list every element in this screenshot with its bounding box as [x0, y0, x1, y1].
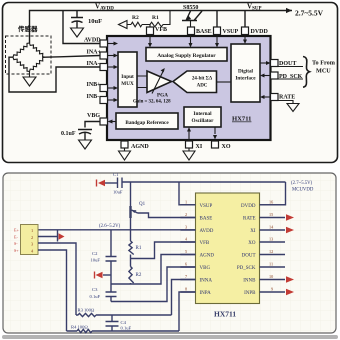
svg-text:11: 11: [269, 262, 273, 267]
svg-text:Interface: Interface: [235, 76, 256, 82]
pin VBG: [100, 118, 108, 125]
svg-text:Analog Supply Regulator: Analog Supply Regulator: [157, 53, 216, 59]
gnd arrow INPB pin9: [286, 289, 294, 295]
pin AVDD: [100, 40, 108, 47]
wire J1 pin3 to R3: [38, 243, 76, 315]
svg-text:R1: R1: [152, 15, 159, 21]
svg-text:AGND: AGND: [200, 254, 215, 259]
ground (XI): [183, 148, 195, 160]
pin names right: [237, 204, 256, 296]
svg-text:PD_SCK: PD_SCK: [237, 266, 256, 271]
svg-text:INB+: INB+: [87, 82, 102, 88]
svg-text:S8550: S8550: [183, 5, 198, 11]
block 24-bit ADC: [173, 71, 217, 93]
resistor R3: [76, 313, 172, 316]
wire VSUP into regulator: [216, 35, 218, 44]
svg-text:Gain = 32, 64, 128: Gain = 32, 64, 128: [133, 100, 171, 105]
wire DVDD into chip: [244, 35, 246, 41]
wire R3 to INNA pin7: [172, 280, 196, 316]
block Bandgap Reference: [116, 113, 178, 129]
svg-text:Q1: Q1: [139, 202, 146, 207]
svg-text:C3: C3: [92, 287, 98, 292]
block Input MUX: [118, 52, 137, 107]
pin numbers right: [269, 199, 274, 291]
svg-text:R4 100Ω: R4 100Ω: [71, 325, 88, 330]
svg-text:VBG: VBG: [200, 266, 211, 271]
svg-text:传感器: 传感器: [17, 24, 38, 33]
pin INB-: [100, 97, 108, 104]
resistor R1: [129, 230, 134, 267]
transistor Q1: [130, 182, 132, 230]
svg-text:6: 6: [185, 262, 187, 267]
ground (10uF): [71, 28, 84, 37]
resistor R2: [131, 22, 142, 27]
pin DOUT: [260, 62, 267, 64]
ground (VFB divider, sideways): [119, 21, 128, 29]
capacitor 10uF: [71, 11, 83, 29]
svg-text:Bandgap Reference: Bandgap Reference: [125, 120, 169, 126]
svg-text:7: 7: [185, 274, 187, 279]
wire rail arrowhead: [286, 8, 292, 13]
svg-text:XI: XI: [196, 144, 203, 150]
svg-text:INPB: INPB: [244, 291, 256, 296]
capacitor C1: [118, 178, 123, 189]
wire ADC to digital interface: [217, 81, 232, 83]
svg-text:2: 2: [185, 212, 187, 217]
svg-text:2: 2: [31, 235, 33, 240]
svg-text:Oscillator: Oscillator: [192, 118, 215, 124]
svg-text:HX711: HX711: [232, 116, 251, 123]
svg-text:MUX: MUX: [121, 81, 134, 87]
svg-text:MCUVDD: MCUVDD: [292, 188, 314, 193]
svg-text:XO: XO: [222, 144, 231, 150]
svg-text:VFB: VFB: [200, 241, 210, 246]
svg-text:E-: E-: [14, 235, 18, 240]
wire bridge to INA- (staircase): [9, 57, 100, 92]
bottom panel frame: [3, 173, 336, 333]
svg-text:AVDD: AVDD: [200, 229, 214, 234]
svg-text:INNA: INNA: [200, 279, 213, 284]
brace to MCU: [303, 57, 310, 88]
svg-text:8: 8: [185, 287, 187, 292]
bridge resistor arm bottom-right: [30, 57, 46, 71]
ground (AGND): [119, 148, 131, 160]
bridge dashed box: [6, 36, 52, 74]
svg-text:XO: XO: [248, 241, 256, 246]
svg-text:13: 13: [269, 237, 273, 242]
HX711 chip block: [107, 36, 271, 140]
wire top rail: [122, 181, 286, 183]
wire AVDD rail: [38, 229, 196, 231]
wire MUX to PGA: [137, 76, 147, 88]
svg-text:12: 12: [269, 249, 273, 254]
connector J1: [21, 225, 39, 255]
pin numbers left: [185, 199, 188, 291]
svg-text:5: 5: [185, 249, 187, 254]
svg-text:HX711: HX711: [214, 310, 236, 319]
gnd arrow RATE pin15: [286, 214, 294, 220]
ground (RATE): [287, 104, 299, 112]
svg-text:MCU: MCU: [316, 68, 331, 75]
block Internal Oscillator: [184, 107, 221, 127]
resistor R2: [129, 267, 134, 285]
svg-text:9: 9: [271, 287, 273, 292]
wire DVDD riser: [260, 182, 286, 205]
panel shadow: [2, 335, 338, 339]
pin RATE: [264, 96, 271, 98]
pin BASE: [190, 21, 192, 28]
svg-text:INA+: INA+: [87, 50, 102, 56]
svg-text:10: 10: [269, 274, 273, 279]
svg-text:Input: Input: [121, 74, 134, 80]
svg-text:DVDD: DVDD: [241, 204, 256, 209]
svg-text:DVDD: DVDD: [251, 29, 269, 35]
bridge resistor arm top-right: [30, 43, 46, 57]
op-amp PGA: [147, 71, 172, 93]
left pin stubs 1-8: [181, 205, 196, 292]
svg-text:16: 16: [269, 199, 273, 204]
svg-text:2.7~5.5V: 2.7~5.5V: [295, 9, 324, 18]
bridge resistor arm bottom-left: [13, 57, 30, 71]
pin XO: [214, 127, 216, 134]
wire VFB into regulator: [149, 35, 151, 44]
top panel frame: [3, 3, 338, 163]
wire R4 to INPA pin8: [179, 292, 196, 331]
svg-text:INA-: INA-: [87, 61, 100, 67]
svg-text:0.1uF: 0.1uF: [121, 326, 132, 331]
pin INA+: [100, 52, 108, 59]
svg-text:BASE: BASE: [200, 217, 213, 222]
wire Q1 base to BASE pin: [138, 213, 196, 218]
svg-text:PGA: PGA: [157, 93, 168, 99]
svg-text:INNB: INNB: [243, 279, 256, 284]
svg-text:XI: XI: [250, 229, 256, 234]
svg-text:Digital: Digital: [238, 69, 254, 75]
svg-text:10uF: 10uF: [88, 18, 102, 25]
pin DVDD: [244, 11, 246, 28]
power gnd arrow (C1): [98, 180, 105, 186]
svg-text:INPA: INPA: [200, 291, 212, 296]
svg-text:VFB: VFB: [155, 27, 167, 33]
svg-text:VSUP: VSUP: [200, 204, 213, 209]
svg-text:RATE: RATE: [243, 217, 256, 222]
block Digital Interface: [231, 44, 260, 102]
block Analog Supply Regulator: [146, 48, 227, 62]
svg-text:1: 1: [185, 199, 187, 204]
pin names left: [200, 204, 215, 296]
capacitor C2: [106, 230, 117, 292]
resistor R4: [67, 329, 180, 332]
svg-text:R2: R2: [136, 273, 142, 278]
svg-text:3: 3: [185, 225, 187, 230]
svg-text:VSUP: VSUP: [223, 29, 239, 35]
right pin stubs 9-16: [260, 205, 286, 292]
gnd arrow XI pin14: [286, 227, 294, 233]
svg-text:ADC: ADC: [197, 84, 208, 89]
svg-text:10uF: 10uF: [91, 258, 101, 263]
pin VFB: [147, 27, 154, 35]
bridge resistor arm top-left: [13, 43, 30, 57]
svg-text:BASE: BASE: [196, 29, 212, 35]
svg-text:24-bit ΣΔ: 24-bit ΣΔ: [192, 77, 213, 82]
power gnd arrow (mid): [103, 274, 111, 276]
wire AGND pin5 staircase: [111, 255, 196, 285]
svg-text:R3 100Ω: R3 100Ω: [78, 308, 95, 313]
pin INA-: [100, 64, 108, 71]
svg-text:10uF: 10uF: [113, 190, 123, 195]
pin INB+: [100, 85, 108, 92]
svg-text:Internal: Internal: [193, 111, 212, 117]
pin XI: [188, 131, 190, 141]
capacitor 0.1uF: [78, 130, 92, 141]
wire VFB chain: [127, 11, 170, 28]
wire BASE into regulator: [190, 35, 192, 44]
capacitor C4: [106, 315, 119, 331]
svg-text:1: 1: [31, 228, 33, 233]
svg-text:(2.6~5.2V): (2.6~5.2V): [99, 224, 121, 229]
svg-text:R1: R1: [136, 246, 142, 251]
svg-text:E+: E+: [14, 228, 19, 233]
svg-text:C1: C1: [113, 172, 119, 177]
gnd arrow INNB pin10: [286, 276, 294, 282]
svg-text:15: 15: [269, 212, 273, 217]
wire AVDD: [63, 11, 100, 44]
svg-text:C2: C2: [92, 251, 98, 256]
svg-text:RATE: RATE: [279, 95, 295, 101]
svg-text:C4: C4: [121, 320, 127, 325]
pin VSUP: [216, 11, 218, 28]
IC HX711 U1: [196, 193, 260, 304]
ground (bridge): [23, 72, 36, 87]
pin AGND: [121, 141, 128, 148]
ground (0.1uF): [79, 140, 92, 149]
wire J1 pin4 to R4: [38, 250, 67, 331]
svg-text:INB-: INB-: [87, 94, 100, 100]
wire C3 to VBG pin6: [111, 267, 196, 302]
resistor R1: [150, 22, 163, 27]
svg-text:AGND: AGND: [131, 144, 149, 150]
wire VFB pin4 staircase: [131, 242, 196, 259]
svg-text:AVDD: AVDD: [84, 38, 101, 44]
svg-text:0.1uF: 0.1uF: [90, 294, 101, 299]
wire J1 pin2 + gnd arrow: [38, 230, 58, 242]
svg-text:To From: To From: [312, 60, 336, 67]
wire VSUP riser: [179, 182, 196, 205]
svg-text:R2: R2: [132, 15, 139, 21]
svg-text:VBG: VBG: [87, 113, 100, 119]
wire VBG to 0.1uF: [85, 122, 100, 128]
net VAVDD rail: [30, 11, 293, 44]
svg-text:(2.7~5.5V): (2.7~5.5V): [291, 181, 313, 186]
svg-text:S+: S+: [14, 248, 19, 253]
capacitor C3: [106, 292, 117, 302]
svg-text:DOUT: DOUT: [242, 254, 256, 259]
pin PD_SCK: [264, 75, 271, 77]
wire bridge to INA+: [45, 56, 100, 58]
svg-text:0.1uF: 0.1uF: [61, 131, 76, 137]
